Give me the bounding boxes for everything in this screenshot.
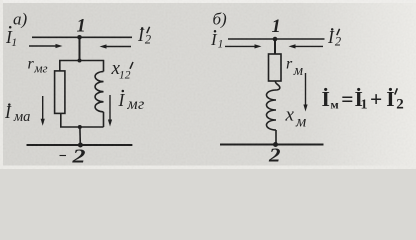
wire: node 1 down to resistor (274, 39, 276, 54)
resistor r_m (269, 54, 282, 81)
ground rail (figure a) (27, 144, 133, 146)
wire: resistor to coil (275, 81, 279, 90)
wire: top conductor of figure a (32, 36, 132, 38)
node 2 (figure b) (273, 142, 278, 147)
arrow: I1 direction (rightwards, fig b) (225, 45, 257, 47)
node 1 (figure a) (77, 35, 82, 40)
arrow: I_mg (downwards) (109, 95, 111, 122)
ground rail (figure b) (220, 144, 324, 146)
inductor x'12 (coil, figure a) (95, 72, 103, 112)
wire: bottom bar of parallel loop (60, 126, 104, 128)
node 1 (figure b) (273, 37, 278, 42)
arrow: I_ma (downwards) (42, 96, 44, 121)
inductor x_m (coil, figure b) (267, 90, 277, 130)
scan grain overlay (0, 0, 416, 169)
resistor r_mg (55, 71, 65, 114)
node 2 (figure a) (78, 143, 83, 148)
arrow: I'2 direction (leftwards, fig b) (293, 45, 323, 47)
arrow: I_m (downwards) (305, 73, 307, 106)
junction dot top (78, 59, 82, 63)
arrow: I1 direction (rightwards) (29, 45, 59, 47)
wire: bottom bar down to node 2 (79, 127, 81, 145)
wire: resistor to bottom bar (60, 113, 62, 127)
wire: node 1 down to parallel branch (79, 37, 81, 60)
junction dot bottom (78, 125, 82, 129)
stray dash mark (60, 155, 67, 157)
wire: top conductor of figure b (228, 38, 325, 40)
wire: coil to bottom bar (103, 112, 105, 127)
wire: coil down to node 2 (275, 130, 277, 144)
wire: top bar of parallel loop (60, 61, 104, 72)
arrow: I'2 direction (leftwards) (104, 46, 131, 48)
